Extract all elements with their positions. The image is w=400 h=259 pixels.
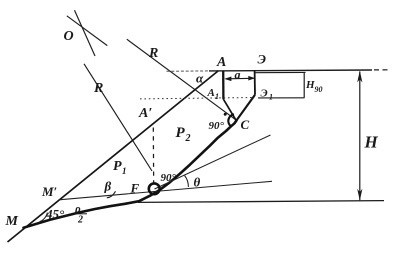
svg-text:O: O xyxy=(64,29,74,44)
svg-text:Э: Э xyxy=(261,88,268,100)
wire vertical A to A1 xyxy=(222,71,224,99)
node O xyxy=(64,10,108,56)
wire line E1 to C thick xyxy=(236,95,255,121)
svg-text:45°-: 45°- xyxy=(45,207,69,222)
svg-text:P: P xyxy=(113,159,122,174)
svg-text:H: H xyxy=(305,79,315,91)
wire fan line from F xyxy=(155,135,271,189)
svg-text:H: H xyxy=(364,133,379,152)
svg-text:A′: A′ xyxy=(138,106,152,121)
wire radius R1 to C xyxy=(127,39,236,120)
svg-text:θ: θ xyxy=(194,175,201,190)
wire dimension a with arrows xyxy=(224,67,255,81)
svg-text:R: R xyxy=(93,81,103,96)
wire O cross line shallow xyxy=(67,16,108,46)
wire dashed vertical A' to F xyxy=(152,128,154,187)
node P2 label xyxy=(176,125,191,144)
node theta angle xyxy=(185,175,201,190)
svg-text:1: 1 xyxy=(269,93,273,102)
svg-text:ρ: ρ xyxy=(74,203,81,215)
wire H90 vertical xyxy=(303,73,305,98)
svg-text:a: a xyxy=(235,67,241,81)
wire H90 top extension xyxy=(255,71,306,73)
wire vertical below E xyxy=(254,71,256,95)
svg-text:1: 1 xyxy=(215,92,219,101)
svg-text:2: 2 xyxy=(185,133,191,144)
svg-text:M′: M′ xyxy=(41,184,58,199)
svg-text:A: A xyxy=(207,87,215,99)
svg-text:C: C xyxy=(241,117,250,132)
svg-text:A: A xyxy=(216,55,226,70)
node P1 label xyxy=(113,159,127,176)
wire O cross line steep xyxy=(75,10,96,56)
wire main line M to A xyxy=(8,71,219,242)
wire shallow line M' through F extended xyxy=(59,181,272,200)
wire radius R2 toward F xyxy=(84,64,152,171)
svg-text:90°: 90° xyxy=(209,120,225,132)
wire slip surface thick curve M-F-C xyxy=(24,120,237,227)
svg-text:90: 90 xyxy=(315,85,323,94)
node beta angle xyxy=(104,179,116,198)
node E1 label xyxy=(261,88,274,102)
wire dotted level line at H90 depth xyxy=(140,98,254,99)
node F 90 degree mark xyxy=(149,172,177,194)
svg-text:1: 1 xyxy=(122,166,127,176)
wire ground bottom line xyxy=(138,201,384,203)
wire line A1 to C xyxy=(223,99,236,120)
svg-text:M: M xyxy=(5,214,19,229)
node C 90 degree mark xyxy=(209,113,235,132)
svg-text:2: 2 xyxy=(77,215,83,226)
svg-text:P: P xyxy=(176,125,186,141)
svg-text:90°: 90° xyxy=(161,172,177,184)
wire dimension H vertical xyxy=(357,71,378,201)
svg-text:α: α xyxy=(196,71,204,86)
node A1 label xyxy=(207,87,220,101)
svg-text:β: β xyxy=(104,179,112,194)
node 45 - rho/2 angle at M xyxy=(40,203,88,226)
wire ground surface top line xyxy=(167,70,390,72)
svg-text:Э: Э xyxy=(258,52,267,67)
svg-text:F: F xyxy=(130,181,140,196)
wire H90 bottom extension xyxy=(258,97,305,99)
node H90 label xyxy=(305,79,323,94)
svg-text:R: R xyxy=(148,46,158,61)
